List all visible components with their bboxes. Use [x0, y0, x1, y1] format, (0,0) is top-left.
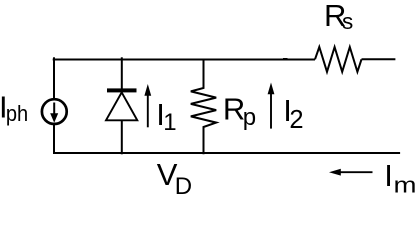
- wire diode bottom lead: [121, 120, 123, 154]
- label Im: [384, 158, 415, 198]
- resistor Rp branch (zigzag): [191, 59, 216, 155]
- label VD: [157, 157, 192, 200]
- node joint bump on top rail: [283, 58, 288, 60]
- svg-text:ph: ph: [6, 101, 28, 126]
- label Rp: [223, 92, 256, 131]
- arrow I1: [144, 84, 151, 127]
- wire top right: [362, 58, 396, 60]
- label Iph: [0, 89, 28, 126]
- svg-text:2: 2: [289, 106, 303, 134]
- label I1: [156, 97, 176, 136]
- wire left vertical bottom: [53, 124, 55, 153]
- svg-text:p: p: [243, 104, 256, 131]
- resistor Rs (zigzag): [315, 47, 362, 72]
- wire diode top lead: [121, 57, 123, 89]
- svg-text:1: 1: [163, 109, 176, 136]
- current source Iph circle: [42, 99, 67, 124]
- label I2: [283, 93, 303, 134]
- diode D1 triangle: [106, 92, 137, 120]
- arrow I2: [268, 83, 275, 129]
- svg-text:s: s: [342, 9, 353, 34]
- wire left vertical top: [53, 57, 55, 99]
- svg-text:D: D: [175, 173, 192, 199]
- svg-text:I: I: [384, 158, 393, 193]
- current source arrow: [50, 103, 58, 123]
- arrow Im: [329, 169, 373, 176]
- svg-text:m: m: [394, 173, 415, 198]
- diode D1 cathode bar: [107, 88, 137, 92]
- label Rs: [324, 0, 353, 34]
- wire top rail: [53, 59, 315, 61]
- wire bottom rail: [53, 152, 400, 154]
